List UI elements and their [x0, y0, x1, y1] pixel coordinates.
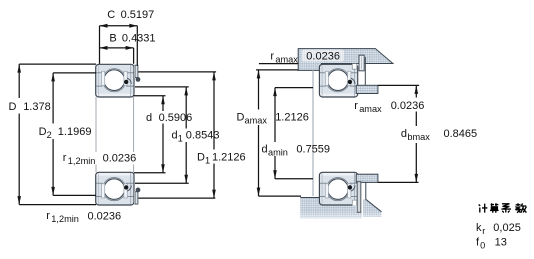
bearing section bottom-right — [319, 172, 357, 205]
r_amax leader (bore line extended left) — [259, 63, 298, 65]
snap ring tab upper (right view) — [359, 55, 364, 71]
snap ring groove notch bottom-right — [352, 200, 357, 205]
svg-text:r: r — [63, 152, 67, 164]
snap ring tab top (left view) — [134, 66, 136, 79]
svg-text:r: r — [354, 100, 358, 112]
svg-text:r: r — [482, 226, 485, 236]
svg-text:1,2min: 1,2min — [68, 156, 96, 166]
side silhouette lines through bore gap — [95, 97, 97, 152]
svg-text:0.0236: 0.0236 — [306, 51, 340, 63]
housing upper (hatched) — [298, 49, 393, 71]
housing lower (hatched, fading) — [300, 198, 381, 220]
系 — [501, 204, 511, 213]
dimension d_bmax — [378, 85, 419, 182]
dimension D2 — [53, 73, 96, 195]
dimension D_amax — [256, 70, 301, 196]
svg-text:1.2126: 1.2126 — [212, 151, 246, 163]
svg-text:r: r — [46, 210, 50, 222]
chinese title drawn as strokes — [479, 203, 527, 213]
svg-text:d: d — [401, 128, 407, 140]
svg-text:0.7559: 0.7559 — [296, 143, 330, 155]
svg-text:amax: amax — [245, 116, 268, 126]
svg-text:1: 1 — [205, 155, 210, 165]
svg-text:bmax: bmax — [407, 132, 430, 142]
svg-text:1.1969: 1.1969 — [58, 126, 92, 138]
svg-text:0.0236: 0.0236 — [88, 211, 122, 223]
snap ring tab lower (right view) — [357, 182, 361, 213]
svg-text:0.8465: 0.8465 — [444, 128, 478, 140]
svg-text:k: k — [476, 222, 482, 234]
svg-text:d: d — [146, 112, 152, 124]
数 — [515, 203, 526, 213]
dimension D1 — [138, 72, 216, 198]
abutment bar lower (d_b) — [356, 174, 378, 182]
svg-text:1.378: 1.378 — [23, 101, 51, 113]
svg-text:2: 2 — [47, 130, 52, 140]
svg-text:D: D — [9, 101, 17, 113]
算 — [490, 203, 499, 213]
dimension d1 — [135, 87, 189, 183]
svg-text:0.5197: 0.5197 — [121, 9, 155, 21]
svg-text:B: B — [109, 32, 116, 44]
svg-text:amax: amax — [359, 104, 382, 114]
snap ring groove notch top-right (ring sprung into housing) — [352, 64, 357, 69]
svg-text:D: D — [39, 126, 47, 138]
svg-text:amax: amax — [275, 55, 298, 65]
label r_amax upper with white box — [302, 49, 344, 61]
svg-text:C: C — [107, 9, 115, 21]
svg-text:1: 1 — [178, 134, 183, 144]
dimension C — [100, 26, 138, 66]
svg-text:0.4331: 0.4331 — [122, 32, 156, 44]
svg-text:13: 13 — [495, 236, 507, 248]
svg-text:0.5906: 0.5906 — [159, 112, 193, 124]
bearing section top-left — [96, 64, 134, 97]
svg-text:0: 0 — [480, 240, 485, 250]
bearing section bottom-left (mirrored) — [96, 172, 134, 205]
svg-text:0.0236: 0.0236 — [103, 153, 137, 165]
shaft shoulder face (faint) — [312, 70, 314, 196]
svg-text:D: D — [237, 112, 245, 124]
housing face line upper right — [364, 57, 366, 85]
dimension D — [19, 64, 96, 205]
svg-text:amin: amin — [268, 147, 288, 157]
svg-text:1.2126: 1.2126 — [275, 112, 309, 124]
svg-text:D: D — [197, 151, 205, 163]
housing face line and diagonal, lower right — [365, 182, 367, 199]
dimension d_amin — [275, 88, 313, 179]
svg-text:d: d — [262, 143, 268, 155]
svg-text:d: d — [172, 130, 178, 142]
svg-text:0,025: 0,025 — [493, 222, 521, 234]
svg-text:1,2min: 1,2min — [51, 214, 79, 224]
dimension B — [100, 48, 134, 64]
abutment bar upper (d_b) — [356, 85, 378, 93]
snap ring tab bottom (left view) — [134, 191, 136, 204]
bearing section top-right — [319, 64, 357, 97]
计 — [479, 204, 488, 213]
dimension d — [134, 96, 166, 173]
svg-text:r: r — [270, 51, 274, 63]
svg-text:0.0236: 0.0236 — [391, 100, 425, 112]
